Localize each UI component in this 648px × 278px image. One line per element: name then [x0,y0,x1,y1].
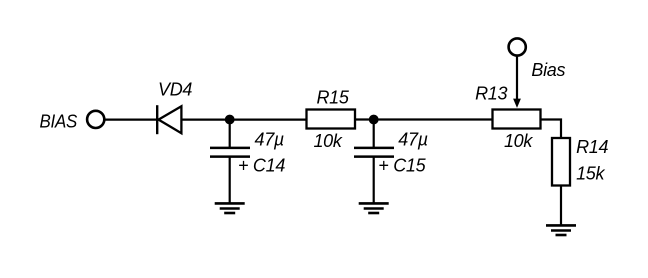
ground (C15) [359,203,389,213]
svg-text:R13: R13 [475,84,507,104]
wire BIAS terminal to VD4 [105,118,156,120]
capacitor C14 [210,148,250,157]
svg-text:15k: 15k [576,163,605,183]
svg-text:10k: 10k [504,131,533,151]
wire R15 to R13 [355,118,493,120]
svg-text:47µ: 47µ [398,129,428,149]
svg-text:R15: R15 [316,88,349,108]
capacitor C15 [354,148,394,157]
ground (R14) [546,225,576,235]
junction node 2 [369,115,379,125]
wire Bias terminal to R13 wiper [513,56,521,108]
svg-text:BIAS: BIAS [40,112,78,132]
svg-text:47µ: 47µ [255,129,285,149]
wire node 1 to C14 [229,120,231,148]
ground (C14) [215,203,245,213]
wire C15 to ground [373,157,375,203]
svg-text:Bias: Bias [531,60,565,80]
svg-text:+ C15: + C15 [378,156,426,176]
terminal BIAS [87,111,104,128]
svg-text:VD4: VD4 [158,80,192,100]
wire R13 to R14 [541,120,562,139]
svg-text:R14: R14 [576,137,608,157]
svg-text:10k: 10k [313,131,342,151]
wire C14 to ground [229,157,231,203]
wire VD4 to R15 [181,118,307,120]
terminal Bias [509,38,526,55]
junction node 1 [225,115,235,125]
wire R14 to ground [560,186,562,226]
wire node 2 to C15 [373,120,375,148]
resistor R13 [493,110,541,129]
svg-text:+ C14: + C14 [238,156,285,176]
resistor R15 [307,110,356,129]
diode VD4 [157,105,181,134]
resistor R14 [552,138,570,186]
